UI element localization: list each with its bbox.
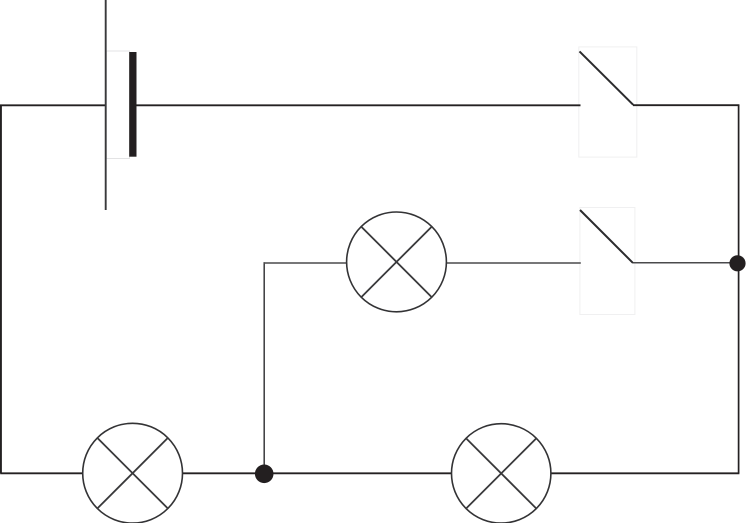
wire: left vertical rail	[0, 105, 2, 474]
wire: top horizontal from switch S1 to top-right corner	[633, 104, 739, 106]
switch S2 blade (open, diagonal)	[580, 210, 633, 263]
lamp L1 cross diagonal 2	[361, 227, 432, 298]
switch S2 background box	[580, 208, 635, 315]
battery B1 long plate (thin vertical line)	[105, 0, 107, 210]
lamp L2 cross diagonal 2	[97, 438, 168, 509]
wire: middle vertical from corner node down to junction	[263, 262, 265, 473]
junction dot on bottom rail (node B)	[255, 465, 274, 484]
lamp L1 (middle) circle	[347, 212, 447, 312]
wire: bottom horizontal rail	[0, 472, 739, 474]
switch S1 background box	[579, 47, 637, 157]
battery B1 short plate (thick bar)	[129, 52, 136, 157]
lamp L3 (bottom right) circle	[452, 424, 551, 523]
wire: right vertical rail	[738, 105, 740, 474]
wire: from switch S2 right contact to right rail junction	[633, 262, 739, 264]
wire: top horizontal from battery to switch S1 left contact	[136, 104, 581, 106]
lamp L3 cross diagonal 1	[466, 438, 536, 508]
junction dot on right rail (node A)	[729, 255, 745, 271]
battery B1 background box	[106, 51, 129, 159]
wire: middle horizontal from corner to lamp L1 and on to switch S2 left contact	[264, 262, 581, 264]
lamp L1 cross diagonal 1	[361, 227, 432, 298]
lamp L2 cross diagonal 1	[97, 438, 168, 509]
wire: top-left horizontal from left rail to battery	[0, 104, 106, 106]
switch S1 blade (open, diagonal)	[580, 51, 634, 104]
lamp L2 (bottom left) circle	[83, 423, 183, 523]
lamp L3 cross diagonal 2	[466, 438, 536, 508]
